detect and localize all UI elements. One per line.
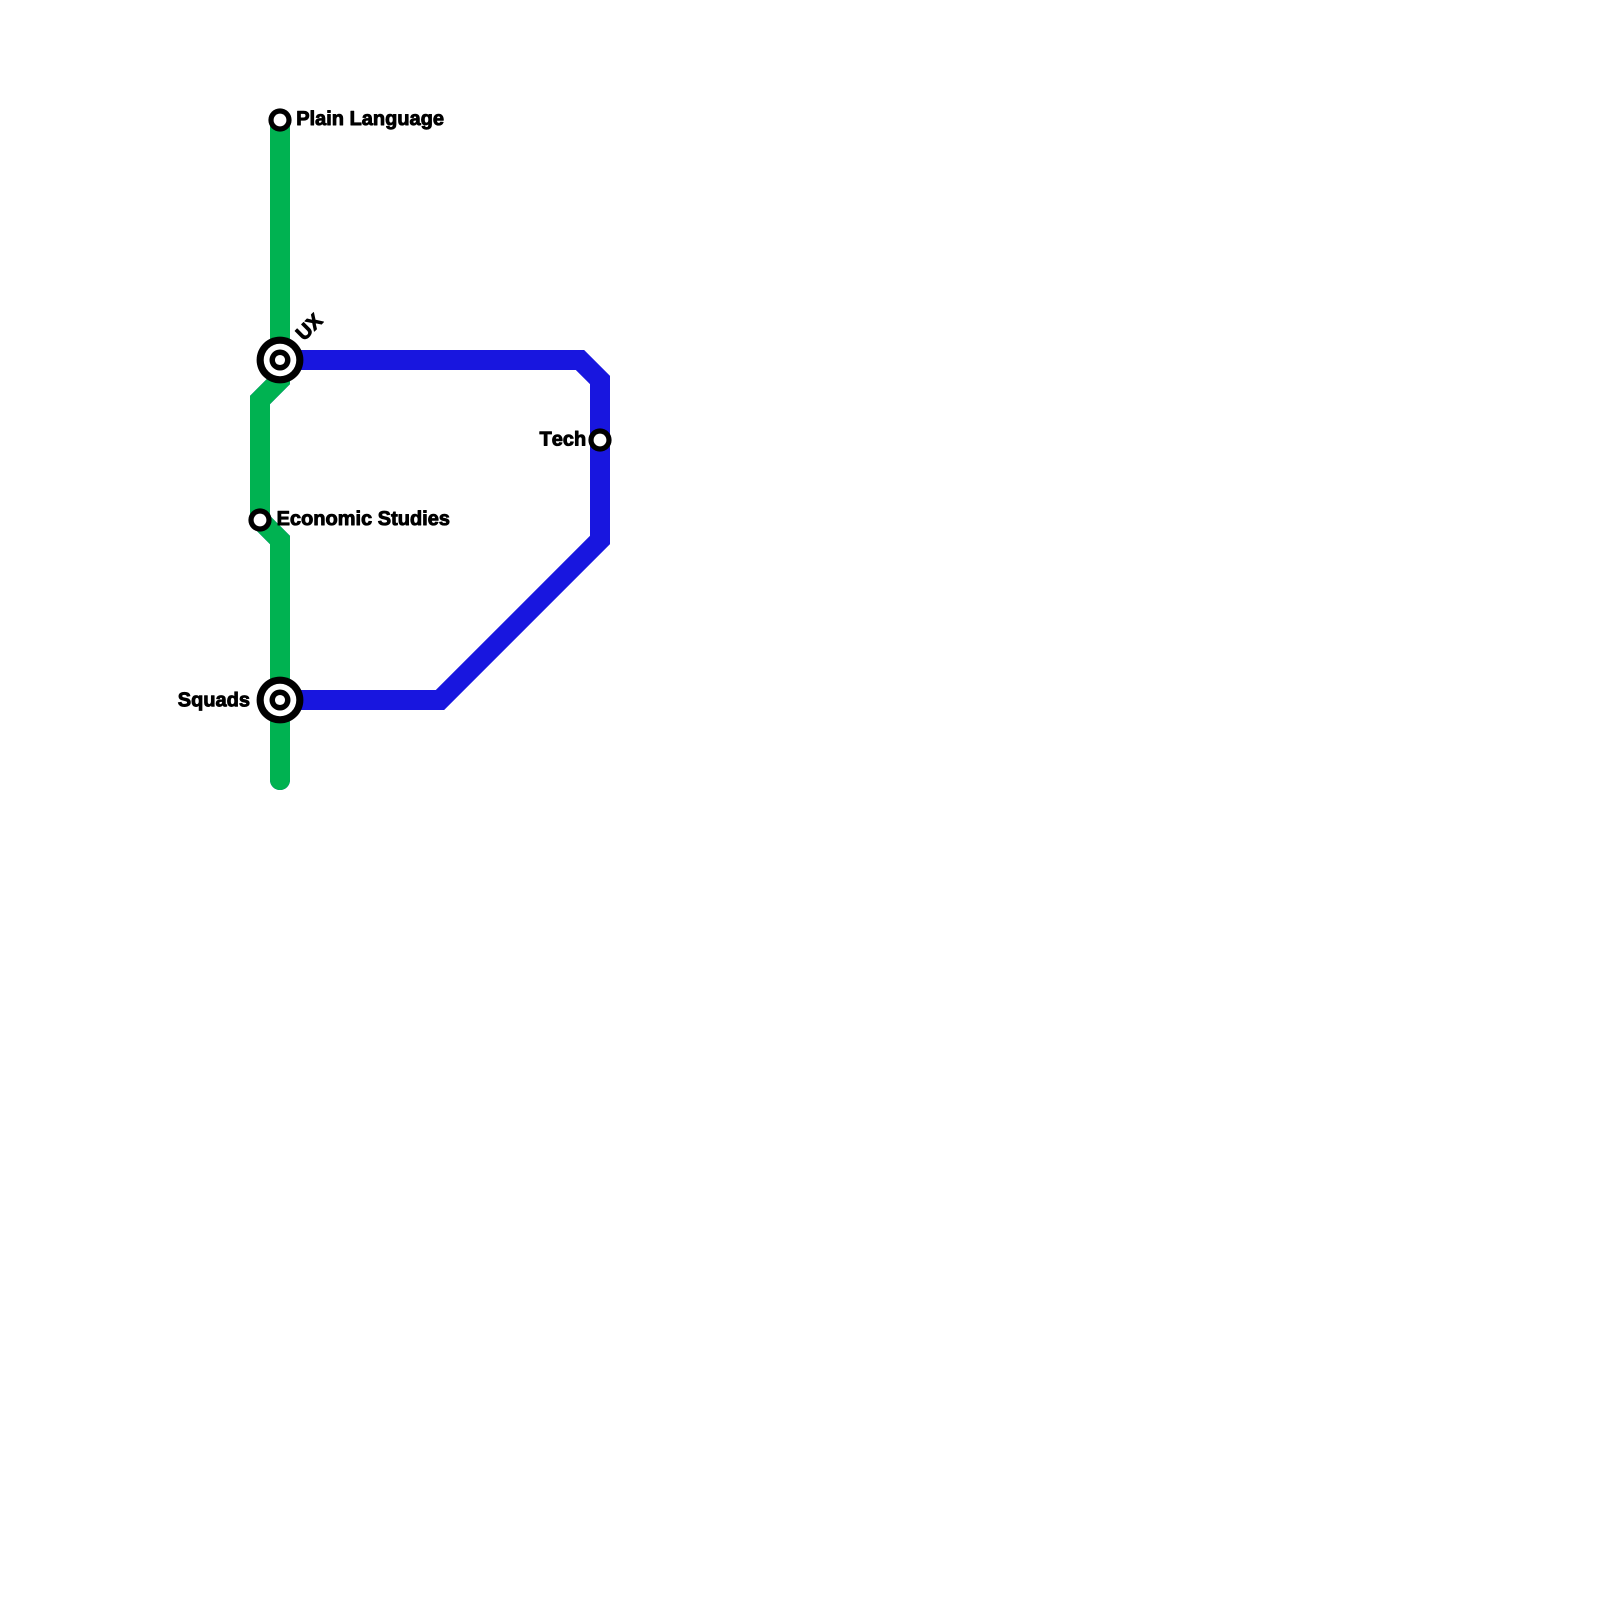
label Squads <box>178 692 249 711</box>
label UX <box>295 313 323 339</box>
station Tech (small circle marker) <box>588 428 611 451</box>
station UX (interchange bullseye marker) <box>257 337 304 384</box>
label Economic Studies <box>278 511 449 526</box>
label Plain Language <box>298 111 444 130</box>
station Plain Language (small circle marker) <box>268 108 291 131</box>
blue line (loop: southern terminus, north via Economic Studies to UX, east, south past Tech, back to Squads) <box>260 360 600 780</box>
station Economic Studies (small circle marker) <box>248 508 271 531</box>
green line (Plain Language south to terminus, overlapping the blue return segment) <box>260 120 280 780</box>
station Squads (interchange bullseye marker) <box>257 677 304 724</box>
label Tech <box>540 431 585 446</box>
